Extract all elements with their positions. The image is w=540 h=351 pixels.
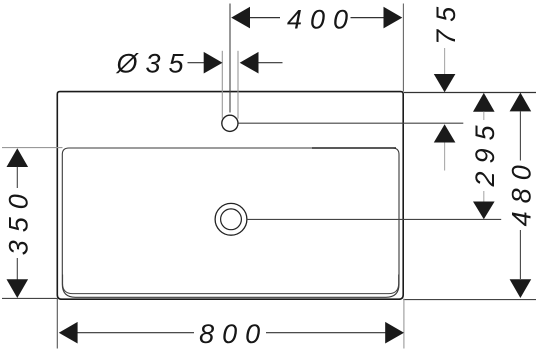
faucet hole extension line right <box>237 51 239 119</box>
bowl bottom contour <box>63 275 399 294</box>
svg-text:400: 400 <box>287 5 356 35</box>
dim tail 75 upper <box>444 48 446 74</box>
dim tail 480 upper <box>519 111 521 160</box>
svg-text:480: 480 <box>507 157 537 226</box>
faucet hole extension line left <box>221 51 223 119</box>
inner basin rim opening <box>62 148 399 297</box>
dim tail 295 upper <box>483 112 485 121</box>
dim line 400 right segment <box>351 17 385 19</box>
dim line 800 right segment <box>266 332 386 334</box>
right extension line above basin <box>402 4 404 92</box>
rim top edge darker right segment <box>312 147 396 149</box>
leader line from faucet hole <box>239 122 464 124</box>
top edge extension to right <box>404 92 536 94</box>
arrow 295 up <box>473 93 495 112</box>
svg-text:Ø35: Ø35 <box>115 49 191 79</box>
svg-text:295: 295 <box>470 117 500 187</box>
dim tail line O35 left <box>188 62 205 64</box>
dim tail 75 lower <box>444 143 446 171</box>
arrow 75 down <box>434 74 456 92</box>
dim tail 295 lower <box>483 191 485 202</box>
arrow 350 up <box>7 148 29 167</box>
arrow 400 right <box>384 7 403 29</box>
arrow 800 left <box>59 322 78 344</box>
extension line below basin left <box>56 299 58 349</box>
dim tail 350 upper <box>16 167 18 188</box>
drain outer circle <box>215 203 247 235</box>
extension line below basin right <box>403 299 405 349</box>
dim tail 350 lower <box>16 258 18 280</box>
drain leader line <box>247 218 501 220</box>
bottom extension line right <box>403 299 536 301</box>
center extension line of faucet hole <box>229 4 231 113</box>
drain inner circle <box>221 209 242 230</box>
faucet hole circle <box>222 115 238 131</box>
dim tail 480 lower <box>519 230 521 279</box>
arrow 295 down <box>473 202 495 220</box>
dim tail line O35 right <box>258 62 282 64</box>
arrow 75 up <box>434 124 456 142</box>
svg-text:350: 350 <box>4 186 34 255</box>
dim line 800 left segment <box>77 332 194 334</box>
svg-text:75: 75 <box>431 0 461 45</box>
outer ceramic outline <box>57 92 403 300</box>
dim line 400 left segment <box>249 17 280 19</box>
svg-text:800: 800 <box>199 319 268 349</box>
arrow 400 left <box>231 7 250 29</box>
arrow 480 down <box>510 279 532 298</box>
arrow O35 pointing left <box>240 52 259 74</box>
bottom extension line left <box>2 297 57 299</box>
arrow 480 up <box>510 93 532 112</box>
arrow 350 down <box>7 279 29 298</box>
inner top extension to left <box>2 147 63 149</box>
arrow O35 pointing right <box>204 52 223 74</box>
arrow 800 right <box>385 322 404 344</box>
